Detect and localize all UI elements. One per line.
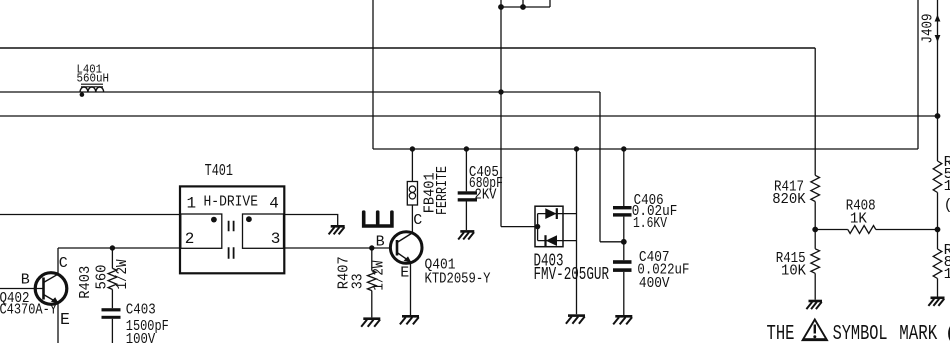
svg-text:C: C xyxy=(413,212,422,229)
wire top bus A (y=48) xyxy=(0,47,815,49)
svg-text:(: ( xyxy=(944,197,950,214)
ground for Q401 emitter xyxy=(402,315,419,318)
wire R408 right lead xyxy=(876,229,938,231)
wire right chain to ground xyxy=(937,279,939,297)
wire R407 to ground xyxy=(371,291,373,318)
diode pack D403 box xyxy=(535,206,563,247)
svg-text:J409: J409 xyxy=(920,14,937,44)
node junction dot (112.4,248) xyxy=(110,245,115,250)
wire vertical x=501 down to D403 xyxy=(500,7,502,227)
svg-text:1: 1 xyxy=(187,195,197,213)
wire Q401 collector up to FB401 xyxy=(411,205,413,233)
wire bus C (y=116) xyxy=(0,115,938,117)
svg-text:FMV-205GUR: FMV-205GUR xyxy=(534,265,610,285)
wire vertical x=373 from top edge to bus D xyxy=(372,0,374,149)
wire B corner down at x=600 xyxy=(599,92,601,242)
ground for C406/C407 xyxy=(615,315,632,318)
wire R403 top lead xyxy=(111,248,113,268)
Q402 base wire xyxy=(0,288,44,290)
ferrite bead FB401 xyxy=(407,182,417,206)
svg-text:E: E xyxy=(400,264,409,281)
Q402 emitter diagonal with arrow xyxy=(44,295,59,303)
capacitor C407 plates xyxy=(613,260,632,264)
svg-text:1/2W: 1/2W xyxy=(370,261,387,291)
wire FB401 top lead xyxy=(411,149,413,182)
wire R415 to ground xyxy=(814,273,816,299)
svg-text:B: B xyxy=(376,233,385,250)
svg-text:1/2W: 1/2W xyxy=(114,260,131,290)
svg-text:R403: R403 xyxy=(77,266,94,299)
wire T401 pin2 (y=248) xyxy=(58,247,180,249)
Q401 emitter diagonal with arrow xyxy=(397,253,411,263)
node junction dot (501,7) xyxy=(498,4,504,10)
wire R408 left lead xyxy=(815,229,848,231)
node junction dot D403 (537.6,226.6) xyxy=(535,224,540,229)
wire bus D (y=149) collector supply xyxy=(373,148,918,150)
svg-text:560: 560 xyxy=(93,265,110,290)
svg-text:MARK: MARK xyxy=(899,322,937,343)
T401 secondary winding box xyxy=(243,214,284,248)
svg-text:T401: T401 xyxy=(205,161,233,180)
wire C406 to node xyxy=(623,217,625,261)
svg-text:C: C xyxy=(59,255,68,272)
Q402 base bar xyxy=(42,278,45,300)
node junction dot (623.8,241.8) xyxy=(621,239,627,245)
D403 bottom diode xyxy=(538,240,577,242)
D403 internal left link xyxy=(537,214,539,241)
wire R415 top lead xyxy=(814,230,816,249)
ground for R407 xyxy=(363,317,380,320)
warning triangle symbol xyxy=(803,320,827,341)
svg-text:1K: 1K xyxy=(850,211,867,228)
node junction dot (937.5,116) xyxy=(935,113,941,119)
wire R417 bottom lead xyxy=(814,202,816,230)
Q402 collector diagonal xyxy=(44,274,59,282)
resistor R407 zigzag xyxy=(368,271,377,291)
L401 phase dot xyxy=(80,92,85,97)
wire C407 to ground xyxy=(623,272,625,315)
wire D403 right net bus-to-ground xyxy=(576,149,578,314)
svg-text:400V: 400V xyxy=(639,275,670,292)
svg-text:SYMBOL: SYMBOL xyxy=(833,322,888,343)
svg-text:33: 33 xyxy=(350,273,367,289)
svg-text:4: 4 xyxy=(269,195,279,213)
ground for right chain xyxy=(931,297,945,300)
transformer T401 outer box xyxy=(180,186,284,273)
wire vertical stub x=550 to top edge xyxy=(549,0,551,7)
svg-text:2KV: 2KV xyxy=(475,187,497,204)
ground for C405 xyxy=(460,230,474,233)
node junction dot (576.5,149) xyxy=(574,146,579,151)
wire T401 pin4 to ground xyxy=(284,215,337,226)
wire from x=600 corner to C406/C407 node xyxy=(600,241,624,243)
svg-text:10K: 10K xyxy=(781,263,806,280)
wire C405 to ground xyxy=(465,202,467,231)
wire Q402 emitter down off page xyxy=(57,303,59,343)
svg-text:3: 3 xyxy=(271,230,281,248)
resistor R403 zigzag xyxy=(108,268,117,289)
wire R403 to C403 xyxy=(111,289,113,308)
capacitor C406 plates xyxy=(613,206,632,209)
inductor L401 coil xyxy=(80,87,104,92)
resistor R408 zigzag xyxy=(848,226,876,234)
wire vertical x=918 from top edge to bus D right end xyxy=(917,0,919,149)
wire vertical stub x=501 to top edge xyxy=(500,0,502,7)
svg-text:FERRITE: FERRITE xyxy=(434,166,451,215)
T401 secondary phase dot xyxy=(246,216,252,222)
svg-text:THE: THE xyxy=(767,322,795,343)
svg-text:C4370A-Y: C4370A-Y xyxy=(0,302,57,319)
transistor Q402 circle xyxy=(35,273,67,305)
wire T401 pin3 to Q401 base xyxy=(284,247,390,249)
svg-text:C403: C403 xyxy=(126,302,156,319)
wire T401 pin1 (y=214.5) xyxy=(0,214,180,216)
resistor (right edge top) zigzag xyxy=(933,161,942,193)
wire C405 top lead xyxy=(465,149,467,191)
wire right chain mid xyxy=(937,193,939,250)
node junction dot (466.4,149) xyxy=(464,146,469,151)
wire R407 top lead xyxy=(371,248,373,271)
node junction dot (501,92) xyxy=(498,89,503,94)
resistor R415 zigzag xyxy=(811,249,820,273)
svg-text:E: E xyxy=(60,310,70,329)
Q401 collector diagonal xyxy=(397,233,412,243)
svg-text:1/2W: 1/2W xyxy=(944,178,950,195)
svg-text:100V: 100V xyxy=(126,331,156,343)
heatsink symbol for Q401 xyxy=(362,224,394,228)
Q401 base bar xyxy=(396,240,399,256)
svg-text:KTD2059-Y: KTD2059-Y xyxy=(425,270,491,287)
svg-text:2: 2 xyxy=(185,230,195,248)
capacitor C405 plates xyxy=(458,191,477,194)
node junction dot (523,7) xyxy=(520,4,526,10)
svg-text:560uH: 560uH xyxy=(77,72,110,86)
wire x=501 to D403 left pin xyxy=(501,226,538,228)
resistor (right edge bottom) zigzag xyxy=(933,249,942,279)
node junction dot (937.5,229.5) xyxy=(935,227,941,233)
node junction dot Q401 base (371.8,248) xyxy=(369,245,374,250)
svg-text:1/2W: 1/2W xyxy=(944,266,950,283)
wire A corner down to R417 xyxy=(814,48,816,175)
ground for T401 pin4 xyxy=(331,225,345,228)
node junction dot (623.8,149) xyxy=(621,146,626,151)
svg-text:H-DRIVE: H-DRIVE xyxy=(204,194,259,211)
wire C403 bottom lead off page xyxy=(111,319,113,343)
jumper J409 wire with arrows xyxy=(937,0,939,161)
transistor Q401 circle xyxy=(390,232,422,264)
wire horizontal top link y=7 xyxy=(501,6,550,8)
T401 core bars xyxy=(229,221,234,259)
svg-text:B: B xyxy=(21,272,30,289)
ground for D403 xyxy=(568,314,585,317)
svg-text:(: ( xyxy=(945,322,950,343)
wire C406 top lead xyxy=(623,149,625,206)
T401 primary phase dot xyxy=(211,217,217,223)
ground for R415 xyxy=(809,300,823,303)
node junction dot (815.2,229.5) xyxy=(812,227,818,233)
resistor R417 zigzag xyxy=(811,175,820,201)
svg-text:820K: 820K xyxy=(772,191,806,208)
svg-text:1.6KV: 1.6KV xyxy=(633,215,667,232)
wire Q402 collector up to pin2 wire xyxy=(57,248,59,274)
D403 top diode xyxy=(538,213,577,215)
T401 primary winding box xyxy=(181,214,222,248)
wire bus B (y=92) through L401 xyxy=(0,91,600,93)
node junction dot (412.4,149) xyxy=(410,146,415,151)
capacitor C403 plates xyxy=(102,308,121,311)
wire Q401 emitter to ground xyxy=(410,262,412,315)
wire vertical stub x=523 to top edge xyxy=(522,0,524,7)
